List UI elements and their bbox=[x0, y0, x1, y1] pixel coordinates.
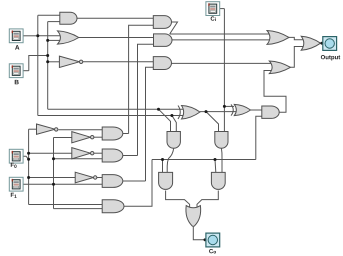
xor gate XOR2 (sum xor Ci) bbox=[231, 104, 233, 115]
and gate AND_co (sum enable) bbox=[262, 106, 279, 118]
wire AND_d3 out bbox=[123, 180, 146, 182]
connector dot Co pin bbox=[204, 238, 207, 241]
input pin F0 bbox=[9, 149, 23, 163]
wire TF0 bottom to AND_d4 in1 bbox=[29, 204, 104, 206]
xor gate XOR1 (A xor B) bbox=[178, 106, 180, 120]
junction dot sum split bbox=[205, 110, 208, 113]
junction dot Ci split bbox=[223, 105, 226, 108]
wire A riser to AND1 in1 bbox=[38, 14, 61, 16]
wire decoder en1 riser to Ga in2 bbox=[129, 25, 155, 133]
wire OR1 out to Gb bbox=[79, 37, 156, 39]
wire A pin stub bbox=[22, 35, 38, 37]
wire B to AND1 in2 bbox=[48, 21, 61, 23]
connector dot Output pin bbox=[320, 42, 323, 45]
label Co bbox=[209, 249, 216, 253]
wire OR_top out step to OR_final in1 bbox=[289, 37, 303, 39]
wire B trunk vertical bbox=[47, 22, 49, 110]
not gate NOT_d (F0 invert row3) bbox=[75, 172, 93, 183]
wire A to OR1 in1 bbox=[38, 35, 61, 37]
junction dot F0 to NOT_c bbox=[27, 152, 30, 155]
wire F0 stub bbox=[23, 156, 29, 159]
and gate Gc (enable NOT-function) bbox=[153, 57, 171, 70]
input pin Ci bbox=[206, 2, 220, 16]
wire TF1 branch to AND_d2 in2 bbox=[54, 158, 105, 160]
wire NOT1 out to Gc bbox=[83, 61, 155, 63]
wire V3 out to OR_co in1 bbox=[166, 191, 190, 210]
or gate OR_final (to Output) bbox=[301, 36, 320, 50]
and gate V4 (carry enable right) facing down bbox=[211, 172, 225, 189]
wire w2 Gb out to OR_top in2 bbox=[172, 39, 270, 41]
wire en4 line bbox=[152, 159, 256, 161]
wire Ga pennant diagonal bbox=[170, 22, 178, 34]
junction dot F1 join bbox=[52, 183, 55, 186]
or gate OR_top (final OR of and/or rows) bbox=[267, 31, 289, 45]
or gate OR1 (A OR B) bbox=[58, 31, 79, 44]
wire OR_co out to Co pin bbox=[193, 227, 206, 240]
wire F1 trunk TF1 bbox=[53, 138, 55, 209]
junction dot F0 join bbox=[27, 158, 30, 161]
wire B to NOT1 bbox=[48, 61, 60, 63]
wire A branch diagonal to V1 in2 bbox=[172, 116, 176, 132]
wire decoder en3 riser to Gc in2 bbox=[146, 67, 156, 181]
junction dot en4 to V3 bbox=[161, 158, 164, 161]
wire F1 to AND_d3 in2 bbox=[54, 183, 105, 185]
wire OR_mid out riser to OR_final in2 bbox=[291, 47, 304, 68]
not gate NOT_c (F0 invert row2) bbox=[72, 148, 91, 159]
wire TF1 top to NOT_b bbox=[54, 137, 74, 139]
wire V1 out to V3 in2 bbox=[167, 148, 174, 172]
junction dot A-line to V1 bbox=[170, 114, 173, 117]
wire Ci branch to XOR2 in1 bbox=[224, 105, 234, 107]
wire F1 stub bbox=[23, 183, 54, 185]
and gate Ga (enable AND-function) bbox=[153, 16, 171, 29]
wire NOT_c out to AND_d2 in1 bbox=[94, 152, 104, 154]
wire A trunk vertical bbox=[37, 15, 39, 115]
junction dot F0 to NOT_d bbox=[27, 176, 30, 179]
wire B to OR1 in2 bbox=[48, 39, 61, 41]
wire B riser bbox=[29, 56, 48, 71]
wire V2 out to V4 in2 bbox=[220, 148, 223, 172]
wire NOT_d out to AND_d3 in1 bbox=[97, 177, 104, 179]
or gate OR_mid (not row with sum) bbox=[269, 61, 290, 74]
wire AND_d4 out riser bbox=[124, 160, 152, 207]
junction dot B to OR1 bbox=[46, 39, 49, 42]
wire TF0 branch to NOT_d bbox=[29, 177, 76, 179]
junction dot en4 to V4 bbox=[214, 158, 217, 161]
wire NOT_a out to AND_d1 in1 bbox=[59, 129, 105, 131]
wire A-line horizontal to XOR1 bbox=[38, 115, 184, 117]
wire en4 riser to AND_co in2 bbox=[256, 116, 263, 159]
wire Ci stub bbox=[219, 8, 225, 10]
wire NOT_b out to AND_d1 in2 bbox=[94, 136, 104, 138]
wire TF1 bottom to AND_d4 in2 bbox=[54, 208, 105, 210]
and gate AND_d1 (decoder en1) bbox=[102, 127, 123, 140]
wire B pin stub bbox=[22, 70, 29, 72]
wire en4 tap to V3 in1 bbox=[162, 160, 164, 173]
and gate AND_d4 (decoder en4) bbox=[102, 200, 124, 213]
wire AND_d1 out bbox=[123, 133, 129, 135]
not gate NOT_b (F1 invert) bbox=[72, 132, 91, 143]
input pin B bbox=[9, 64, 23, 78]
wire AND1 out to Ga bbox=[77, 17, 155, 19]
junction dot B join bbox=[46, 54, 49, 57]
label Output bbox=[321, 55, 340, 60]
not gate NOT1 (B invert) bbox=[59, 56, 79, 67]
wire XOR1 out to XOR2 bbox=[200, 111, 237, 113]
wire V4 out to OR_co in2 bbox=[197, 191, 218, 210]
junction dot B-line to V1 bbox=[157, 108, 160, 111]
label F1 bbox=[11, 193, 17, 198]
wire w3 Gc out to OR_mid in1 bbox=[172, 62, 273, 64]
and gate V3 (carry enable left) facing down bbox=[159, 172, 173, 189]
label B bbox=[15, 80, 19, 84]
junction dot B to NOT1 bbox=[46, 60, 49, 63]
wire sum branch diagonal to V2 in1 bbox=[206, 112, 219, 132]
and gate AND1 (A AND B) bbox=[60, 12, 77, 24]
and gate V1 (A AND B carry) facing down bbox=[167, 132, 180, 149]
junction dot F1 to AND_d2 bbox=[52, 157, 55, 160]
junction dot A split bbox=[36, 34, 39, 37]
label Ci bbox=[211, 16, 216, 21]
wire TF0 top to NOT_a bbox=[29, 128, 37, 130]
not gate NOT_a (F0 invert) bbox=[37, 124, 56, 134]
wire B-line horizontal to XOR1 bbox=[48, 108, 184, 110]
wire OR_final out to Output pin bbox=[321, 42, 323, 44]
output pin Co bbox=[206, 233, 220, 247]
input pin F1 bbox=[9, 177, 23, 191]
wire AND_d2 out bbox=[123, 155, 138, 157]
wire decoder en2 riser to Gb in2 bbox=[138, 44, 157, 155]
input pin A bbox=[9, 29, 23, 43]
label A bbox=[15, 45, 19, 49]
wire B branch diagonal to V1 in1 bbox=[159, 109, 171, 131]
wire TF0 branch to NOT_c bbox=[29, 152, 73, 154]
output pin Output bbox=[323, 37, 337, 51]
and gate V2 (sum AND Ci carry) facing down bbox=[215, 132, 228, 149]
and gate AND_d2 (decoder en2) bbox=[102, 149, 123, 162]
wire w1 Ga out to OR_top in1 bbox=[170, 33, 270, 35]
wire en4 tap to V4 in1 bbox=[214, 160, 217, 173]
label F0 bbox=[11, 163, 17, 168]
wire AND_co out loop to OR_mid in2 bbox=[264, 71, 286, 113]
or gate OR_co (carry out) facing down bbox=[186, 206, 201, 227]
wire Ci vertical bbox=[223, 9, 225, 132]
wire F0 trunk TF0 bbox=[28, 129, 30, 204]
wire XOR2 out to AND_co bbox=[251, 109, 263, 111]
and gate AND_d3 (decoder en3) bbox=[102, 175, 123, 188]
and gate Gb (enable OR-function) bbox=[154, 34, 173, 47]
